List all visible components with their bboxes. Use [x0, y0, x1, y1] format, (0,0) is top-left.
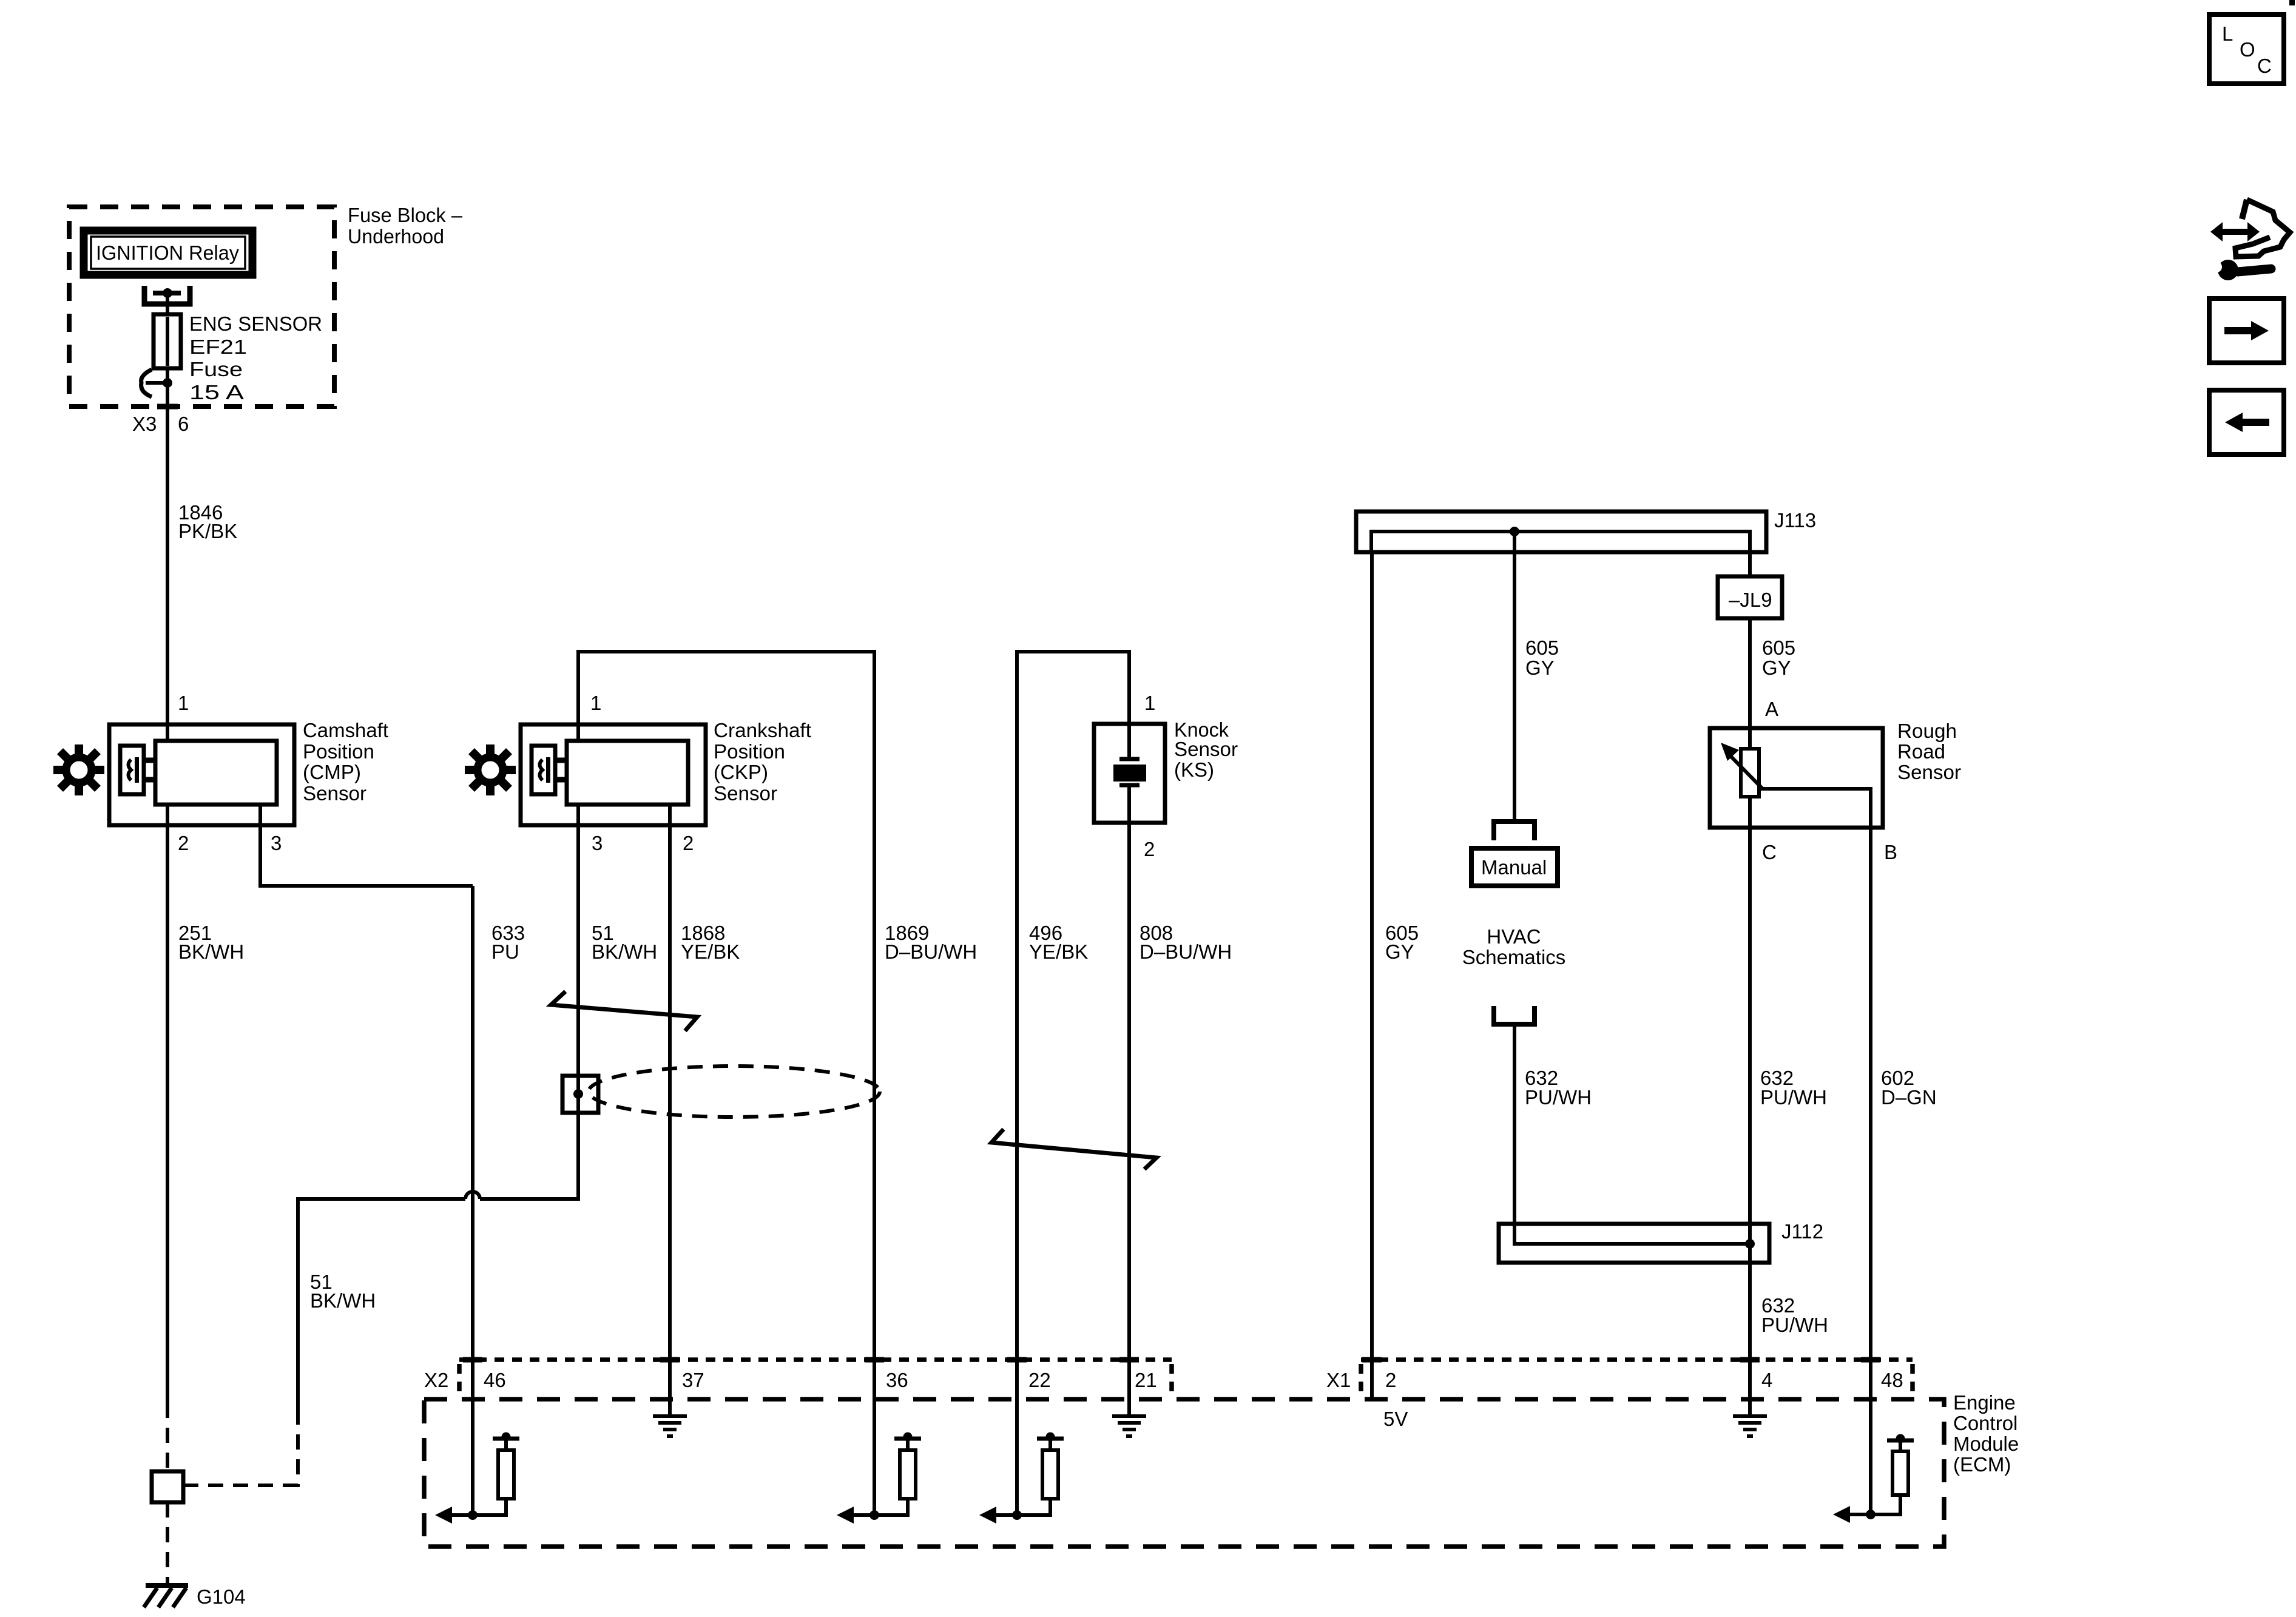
page mark dot [2289, 0, 2295, 5]
svg-text:GY: GY [1762, 657, 1791, 679]
svg-text:Control: Control [1953, 1412, 2017, 1434]
svg-text:BK/WH: BK/WH [178, 940, 244, 963]
svg-text:L: L [2222, 22, 2233, 45]
wire 633 PU [471, 886, 474, 1515]
svg-text:X2: X2 [424, 1369, 448, 1391]
option box -JL9 [1718, 576, 1782, 618]
svg-text:(CKP): (CKP) [714, 761, 768, 783]
RRS potentiometer resistor [1741, 749, 1759, 797]
svg-text:B: B [1884, 841, 1897, 863]
RRS label [1897, 720, 1961, 783]
svg-text:Sensor: Sensor [714, 782, 777, 805]
relay socket U symbol [144, 286, 190, 304]
wire label 496 YE/BK [1029, 922, 1088, 963]
svg-text:(CMP): (CMP) [303, 761, 361, 783]
splice pack J112 [1499, 1224, 1769, 1263]
wire label 605 GY X1-2 [1385, 922, 1419, 963]
svg-text:36: 36 [886, 1369, 908, 1391]
svg-text:21: 21 [1135, 1369, 1157, 1391]
wire stub left of junction [146, 381, 167, 385]
connector ticks X1 [1362, 1357, 1880, 1363]
wire 605 GY JL9 to RRS pin A [1748, 618, 1752, 749]
relay pin crossbar [153, 291, 181, 295]
svg-text:Underhood: Underhood [348, 225, 444, 248]
HVAC schematics label [1462, 925, 1566, 968]
svg-text:Sensor: Sensor [1174, 738, 1238, 760]
icon component with tool [2210, 200, 2290, 280]
connector X2 dashed band [459, 1360, 1172, 1394]
svg-text:GY: GY [1385, 940, 1414, 963]
wire label 1868 YE/BK [681, 922, 740, 963]
junction dot J112 [1745, 1239, 1755, 1249]
hidden wire 51 BK/WH to G104 box [183, 1484, 298, 1487]
svg-text:37: 37 [682, 1369, 704, 1391]
svg-text:(KS): (KS) [1174, 758, 1214, 781]
svg-text:G104: G104 [197, 1585, 246, 1608]
svg-text:D–BU/WH: D–BU/WH [1140, 940, 1232, 963]
gear icon CMP [53, 744, 104, 795]
wire label 605 GY JL9 [1762, 636, 1795, 679]
icon LOC box [2209, 15, 2284, 84]
RRS wiper arrow [1721, 743, 1763, 789]
svg-text:PU/WH: PU/WH [1761, 1314, 1828, 1336]
ECM ground pin 37 [653, 1416, 687, 1436]
wire 808 D-BU/WH KS pin 2 [1127, 823, 1131, 1416]
svg-text:X1: X1 [1326, 1369, 1351, 1391]
CKP sensor label [714, 719, 811, 805]
wire hop over 633 PU [465, 1192, 480, 1199]
svg-text:PK/BK: PK/BK [178, 520, 237, 542]
svg-text:3: 3 [271, 832, 282, 854]
svg-text:BK/WH: BK/WH [592, 940, 657, 963]
wire 632 PU/WH RRS pin C [1748, 797, 1752, 1416]
icon arrow left box [2209, 390, 2284, 454]
svg-text:–JL9: –JL9 [1729, 589, 1772, 611]
svg-text:C: C [1762, 841, 1777, 863]
svg-text:22: 22 [1028, 1369, 1051, 1391]
ECM ground pin 4 [1733, 1416, 1767, 1436]
wire 605 GY to Manual [1513, 532, 1516, 820]
ECM input pin 36 [837, 1433, 921, 1524]
svg-text:EF21: EF21 [189, 336, 247, 358]
hidden wire 251 to G104 box [166, 1403, 169, 1471]
wire 51 BK/WH from CKP pin 3 [480, 805, 578, 1199]
relay IGNITION Relay [84, 231, 252, 275]
svg-text:C: C [2257, 55, 2272, 77]
svg-text:Fuse Block –: Fuse Block – [348, 204, 463, 226]
svg-text:Position: Position [714, 740, 785, 763]
wire label 632 PU/WH pin C [1760, 1067, 1827, 1109]
wire 51 BK/WH to splice [298, 1199, 465, 1409]
wire label 1869 D-BU/WH [885, 922, 977, 963]
wire label 632 PU/WH below J112 [1761, 1294, 1828, 1336]
crossing slash KS wires [991, 1129, 1156, 1169]
svg-text:J113: J113 [1774, 509, 1816, 532]
fuse ENG SENSOR EF21 15A [154, 314, 181, 368]
clip junction dot [573, 1089, 583, 1099]
wire label 602 D-GN [1881, 1067, 1937, 1109]
knock sensor label [1174, 718, 1238, 781]
fuse block - underhood dashed box [69, 207, 334, 407]
wire label 605 GY manual [1525, 636, 1559, 679]
wire label 633 PU [491, 922, 525, 963]
svg-text:D–BU/WH: D–BU/WH [885, 940, 977, 963]
shield clip on 51 BK/WH [562, 1076, 598, 1113]
svg-text:15 A: 15 A [189, 381, 244, 403]
wire label 51 BK/WH lower [310, 1271, 376, 1312]
wire label 251 BK/WH [178, 922, 244, 963]
wire relay pin to fuse [166, 293, 169, 314]
wire 602 D-GN RRS pin B [1869, 828, 1872, 1515]
svg-text:46: 46 [484, 1369, 506, 1391]
wire 632 PU/WH from HVAC [1514, 1024, 1750, 1244]
ECM ground pin 21 [1112, 1416, 1146, 1436]
crossing slash CKP wires [551, 991, 697, 1031]
svg-text:PU/WH: PU/WH [1525, 1086, 1592, 1109]
gear icon CKP [465, 744, 516, 795]
svg-text:2: 2 [178, 832, 189, 854]
svg-text:Manual: Manual [1481, 856, 1547, 879]
shield dashed ellipse [589, 1066, 880, 1117]
hidden wire G104 box to ground [166, 1502, 169, 1584]
svg-text:Road: Road [1897, 740, 1945, 763]
wire 605 GY to X1-2 [1370, 552, 1374, 1399]
svg-text:Sensor: Sensor [303, 782, 366, 805]
wire 605 GY to JL9 [1748, 552, 1752, 576]
svg-text:1: 1 [1144, 692, 1155, 714]
splice pack J113 [1356, 511, 1766, 552]
svg-text:PU: PU [491, 940, 519, 963]
junction dot J113 [1510, 527, 1519, 536]
ECM input pin 46 [435, 1433, 519, 1524]
svg-text:Rough: Rough [1897, 720, 1957, 742]
svg-text:Engine: Engine [1953, 1391, 2016, 1414]
wire label 632 PU/WH hvac [1525, 1067, 1592, 1109]
knock sensor element [1113, 724, 1146, 823]
connector ticks X2 [463, 1357, 1139, 1363]
svg-text:Position: Position [303, 740, 374, 763]
junction dot below fuse [163, 378, 172, 388]
svg-text:Camshaft: Camshaft [303, 719, 388, 741]
ECM input pin 48 [1833, 1434, 1914, 1524]
svg-text:4: 4 [1761, 1369, 1772, 1391]
wire label 1846 PK/BK [178, 501, 237, 542]
camshaft position sensor CMP [109, 724, 294, 825]
svg-text:2: 2 [683, 832, 694, 854]
RRS wiper to pin B [1759, 789, 1871, 828]
svg-text:3: 3 [592, 832, 603, 854]
svg-text:2: 2 [1385, 1369, 1396, 1391]
ECM dashed box [424, 1399, 1944, 1547]
svg-text:D–GN: D–GN [1881, 1086, 1937, 1109]
fuse label [189, 312, 322, 403]
wire fuse to junction [166, 368, 169, 431]
G104 splice box [152, 1471, 183, 1502]
connector tick X3-6 [157, 404, 178, 410]
svg-text:PU/WH: PU/WH [1760, 1086, 1827, 1109]
fuse block label [348, 204, 463, 248]
ECM label [1953, 1391, 2019, 1476]
svg-text:5V: 5V [1383, 1408, 1408, 1430]
svg-text:Crankshaft: Crankshaft [714, 719, 811, 741]
wire CMP pin 3 [260, 805, 473, 886]
svg-text:HVAC: HVAC [1487, 925, 1541, 948]
connector half HVAC [1494, 1006, 1535, 1024]
svg-text:Schematics: Schematics [1462, 946, 1566, 968]
svg-text:YE/BK: YE/BK [1029, 940, 1088, 963]
ECM input pin 22 [979, 1433, 1064, 1524]
svg-text:48: 48 [1881, 1369, 1903, 1391]
hidden wire 51 BK/WH [296, 1409, 300, 1487]
svg-text:O: O [2240, 38, 2255, 61]
svg-text:IGNITION Relay: IGNITION Relay [96, 241, 239, 264]
wire 1846 PK/BK [166, 383, 169, 741]
svg-text:1: 1 [178, 692, 189, 714]
junction dot relay pin [163, 288, 172, 298]
CMP sensor label [303, 719, 388, 805]
svg-text:YE/BK: YE/BK [681, 940, 740, 963]
svg-text:A: A [1765, 698, 1778, 720]
knock sensor KS box [1094, 724, 1165, 823]
wire 1868 YE/BK CKP pin 2 [668, 805, 672, 1416]
crankshaft position sensor CKP [521, 724, 706, 825]
svg-text:2: 2 [1144, 838, 1155, 860]
svg-text:6: 6 [178, 413, 189, 435]
connector X1 dashed band [1361, 1360, 1913, 1394]
ground G104 [144, 1585, 188, 1607]
svg-text:J112: J112 [1781, 1220, 1823, 1243]
svg-text:BK/WH: BK/WH [310, 1289, 376, 1312]
icon arrow right box [2209, 299, 2284, 363]
svg-text:1: 1 [590, 692, 601, 714]
svg-text:Module: Module [1953, 1433, 2019, 1455]
svg-text:GY: GY [1525, 657, 1555, 679]
wire CKP pin 1 loop 1869 D-BU/WH [578, 652, 874, 1515]
svg-text:(ECM): (ECM) [1953, 1453, 2011, 1476]
wire label 51 BK/WH upper [592, 922, 657, 963]
fuse puller curl [141, 370, 152, 397]
svg-text:X3: X3 [132, 413, 157, 435]
svg-text:605: 605 [1525, 636, 1559, 659]
svg-text:Sensor: Sensor [1897, 761, 1961, 783]
svg-text:Fuse: Fuse [189, 358, 243, 380]
Manual box [1471, 848, 1558, 886]
rough road sensor box [1710, 728, 1883, 828]
svg-text:605: 605 [1762, 636, 1795, 659]
connector half Manual [1494, 822, 1535, 840]
wire label 808 D-BU/WH [1140, 922, 1232, 963]
wire 251 BK/WH [166, 805, 169, 1403]
svg-text:ENG SENSOR: ENG SENSOR [189, 312, 322, 335]
wire KS pin 1 loop 496 YE/BK [1017, 652, 1129, 1515]
